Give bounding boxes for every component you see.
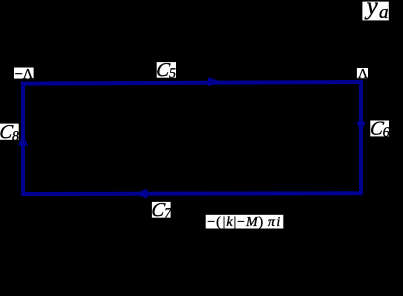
arrowhead on C5 (points right) — [208, 77, 222, 86]
label y_a (axis label) — [362, 0, 388, 23]
svg-text:−Λ: −Λ — [15, 66, 34, 82]
svg-text:−(|k|−M)πi: −(|k|−M)πi — [207, 215, 282, 230]
label C6 — [369, 119, 392, 141]
arrowhead on C8 (points up) — [18, 134, 28, 146]
svg-text:Λ: Λ — [358, 67, 369, 82]
wire C8 left segment — [21, 82, 25, 196]
node label -Lambda — [14, 66, 34, 82]
node label Lambda — [357, 67, 369, 82]
label C8 — [0, 122, 21, 144]
arrowhead on C7 (points left) — [134, 189, 147, 199]
label C7 — [150, 200, 173, 221]
wire C5 top segment — [21, 82, 363, 84]
label C5 — [155, 60, 178, 81]
arrowhead on C6 (points down) — [356, 122, 366, 133]
value label -(|k|-M)pi*i on C7 — [206, 215, 284, 230]
svg-text:ya: ya — [364, 0, 389, 23]
wire C7 bottom segment — [21, 191, 363, 196]
wire C6 right segment — [359, 80, 363, 195]
